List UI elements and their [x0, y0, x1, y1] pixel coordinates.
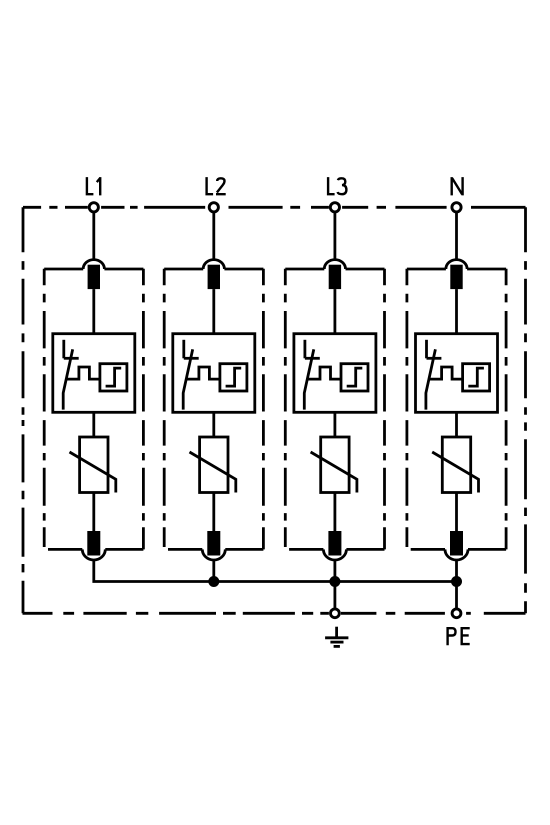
terminal lug X2 bottom of module F4 (black block) — [450, 531, 463, 556]
module F3 boundary (dashed box, L3 path) — [285, 269, 384, 550]
terminal L3 (open circle on top border) — [330, 203, 339, 212]
wire disconnector to varistor, module F1 — [92, 412, 95, 437]
dynamic disconnector U4 outer box — [416, 334, 498, 413]
disconnector U1 switch symbol (fixed lead, contact tick, blade) — [63, 340, 78, 410]
module F1 boundary (dashed box, L1 path) — [44, 269, 143, 550]
wire bus to PE terminal — [455, 582, 458, 610]
wire L2 terminal to module F2 — [212, 212, 215, 261]
disconnector U2 actuator linkage (staircase) — [186, 367, 220, 379]
disconnector U3 step-function glyph — [347, 368, 363, 386]
wire L1 terminal to module F1 — [92, 212, 95, 261]
disconnector U1 step-function glyph — [106, 368, 122, 386]
wire N terminal to module F4 — [455, 212, 458, 261]
wire varistor to bottom lug, module F2 — [212, 493, 215, 532]
wire top lug to disconnector box, module F3 — [333, 289, 336, 334]
dynamic disconnector U2 outer box — [173, 334, 255, 413]
disconnector U4 switch symbol (fixed lead, contact tick, blade) — [426, 340, 442, 410]
wire module F4 to PE bus — [455, 560, 458, 582]
terminal PE (open circle on bottom border) — [452, 609, 461, 618]
wire module F3 to PE bus — [333, 560, 336, 582]
varistor RV2 body (rectangle) — [200, 437, 228, 493]
wire disconnector to varistor, module F3 — [333, 412, 336, 437]
terminal N (open circle on top border) — [452, 203, 461, 212]
module F4 boundary (dashed box, N path) — [407, 269, 506, 550]
disconnector U3 trigger element (small box) — [341, 364, 368, 391]
terminal lug X2 bottom of module F2 (black block) — [207, 531, 220, 556]
disconnector U3 switch symbol (fixed lead, contact tick, blade) — [304, 340, 320, 410]
wire top lug to disconnector box, module F1 — [92, 289, 95, 334]
wire disconnector to varistor, module F4 — [455, 412, 458, 437]
enclosure left border (dash-dot) — [22, 207, 25, 613]
disconnector U3 actuator linkage (staircase) — [307, 367, 341, 379]
disconnector U2 switch symbol (fixed lead, contact tick, blade) — [183, 340, 199, 410]
wire module F2 to PE bus — [212, 560, 215, 582]
disconnector U4 trigger element (small box) — [463, 364, 490, 391]
junction dot node L2/PE bus — [208, 576, 219, 587]
enclosure bottom border (dash-dot) — [23, 612, 526, 615]
terminal L1 (open circle on top border) — [89, 203, 98, 212]
plug-in contact bump bottom of module F3 (arc) — [323, 549, 346, 560]
dynamic disconnector U3 outer box — [294, 334, 376, 413]
terminal lug X2 bottom of module F3 (black block) — [328, 531, 341, 556]
terminal lug X1 top of module F2 (black block) — [208, 265, 220, 289]
plug-in contact bump bottom of module F2 (arc) — [202, 549, 225, 560]
varistor RV3 body (rectangle) — [321, 437, 349, 493]
wire L3 terminal to module F3 — [333, 212, 336, 261]
plug-in contact bump bottom of module F1 (arc) — [82, 549, 105, 560]
label L3 — [328, 177, 346, 194]
wire bus to ground terminal — [333, 582, 336, 610]
plug-in contact bump bottom of module F4 (arc) — [445, 549, 468, 560]
label L1 — [87, 177, 100, 195]
plug-in contact bump top of module F3 (arc) — [324, 260, 345, 269]
junction dot node L3/PE bus — [329, 576, 340, 587]
plug-in contact bump top of module F2 (arc) — [203, 260, 224, 269]
varistor RV3 diagonal stroke — [311, 452, 357, 493]
enclosure top border (dash-dot) — [23, 206, 526, 209]
varistor RV1 diagonal stroke — [70, 452, 116, 493]
disconnector U1 actuator linkage (staircase) — [66, 367, 100, 379]
plug-in contact bump top of module F1 (arc) — [83, 260, 104, 269]
junction dot node N/PE bus — [451, 576, 462, 587]
wire varistor to bottom lug, module F1 — [92, 493, 95, 532]
module F2 boundary (dashed box, L2 path) — [164, 269, 263, 550]
varistor RV4 diagonal stroke — [432, 452, 478, 493]
wire top lug to disconnector box, module F4 — [455, 289, 458, 334]
terminal lug X2 bottom of module F1 (black block) — [87, 531, 100, 556]
varistor RV4 body (rectangle) — [442, 437, 470, 493]
wire top lug to disconnector box, module F2 — [212, 289, 215, 334]
label L2 — [207, 177, 226, 194]
varistor RV2 diagonal stroke — [190, 452, 236, 493]
label N — [452, 177, 463, 195]
ground terminal (open circle on bottom border) — [331, 609, 340, 618]
terminal lug X1 top of module F4 (black block) — [450, 265, 462, 289]
varistor RV1 body (rectangle) — [80, 437, 108, 493]
earth/ground symbol — [325, 627, 348, 647]
PE collecting bus (from module F1 down and across to N branch) — [94, 560, 457, 582]
label PE — [448, 628, 470, 645]
disconnector U4 step-function glyph — [468, 368, 484, 386]
wire varistor to bottom lug, module F4 — [455, 493, 458, 532]
terminal lug X1 top of module F1 (black block) — [88, 265, 100, 289]
disconnector U2 trigger element (small box) — [220, 364, 247, 391]
disconnector U1 trigger element (small box) — [100, 364, 127, 391]
disconnector U2 step-function glyph — [226, 368, 242, 386]
terminal lug X1 top of module F3 (black block) — [329, 265, 341, 289]
terminal L2 (open circle on top border) — [209, 203, 218, 212]
wire varistor to bottom lug, module F3 — [333, 493, 336, 532]
enclosure right border (dash-dot) — [524, 207, 527, 613]
disconnector U4 actuator linkage (staircase) — [429, 367, 463, 379]
wire disconnector to varistor, module F2 — [212, 412, 215, 437]
plug-in contact bump top of module F4 (arc) — [446, 260, 467, 269]
dynamic disconnector U1 outer box — [53, 334, 135, 413]
